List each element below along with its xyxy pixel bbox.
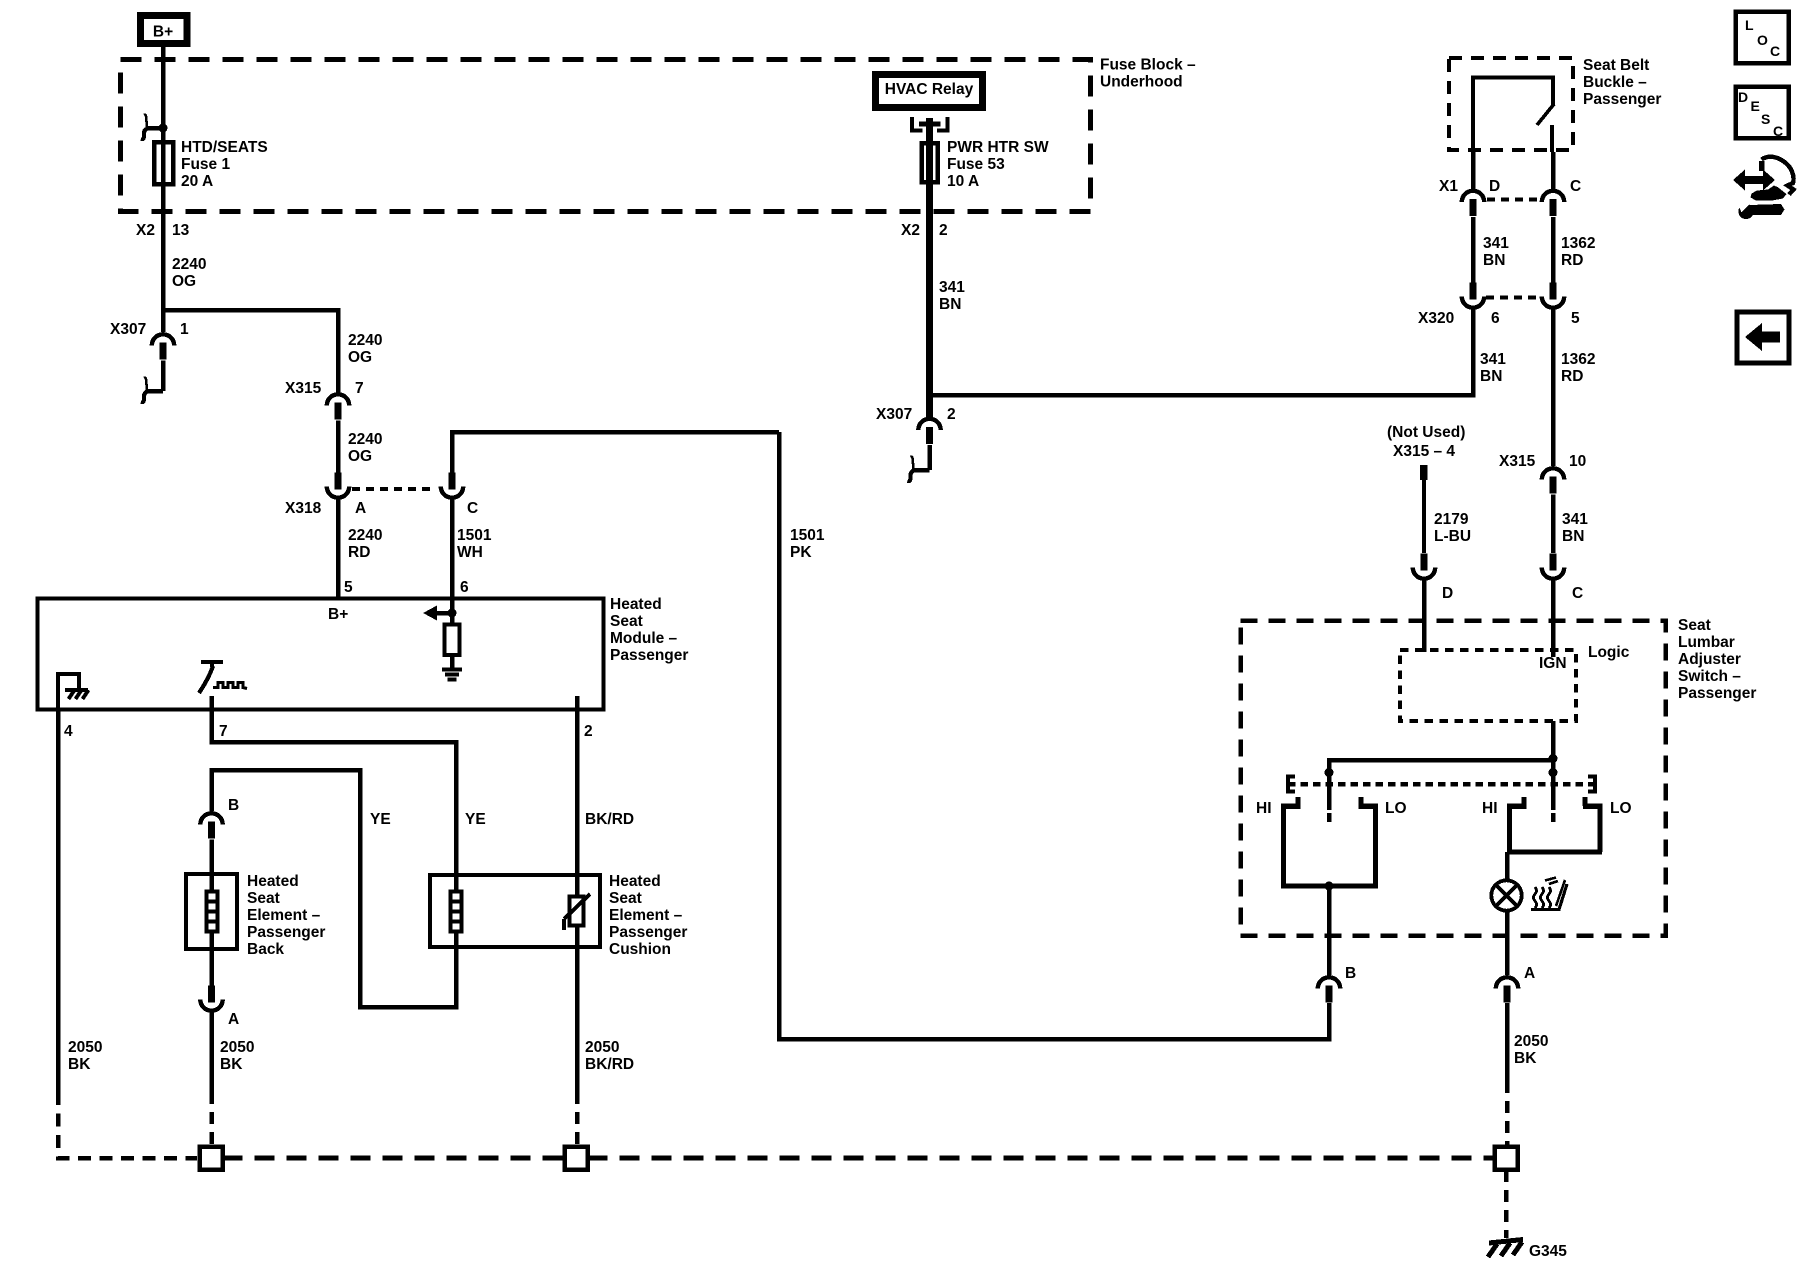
seat lumbar adjuster switch dashed box — [1241, 621, 1666, 936]
wire X1-C to X320-5 — [1551, 217, 1556, 283]
svg-text:Heated: Heated — [247, 873, 299, 890]
svg-text:2240: 2240 — [348, 431, 382, 448]
svg-text:X1: X1 — [1439, 178, 1458, 195]
label Heated Seat Element - Passenger Cushion — [609, 873, 687, 958]
wire pin 2 down to cushion element — [575, 696, 580, 897]
left switch output bar — [1281, 882, 1378, 891]
wire fuse 1 to X307 pin 1 — [161, 186, 166, 332]
wire X318-C to module pin 6 — [450, 500, 455, 599]
svg-text:LO: LO — [1610, 800, 1632, 817]
internal ground below resistor — [442, 670, 462, 680]
svg-text:E: E — [1751, 98, 1760, 114]
svg-text:O: O — [1757, 32, 1768, 48]
fuse block underhood dashed box — [121, 60, 1091, 212]
buckle switch — [1473, 78, 1554, 153]
label LO left — [1385, 800, 1407, 817]
svg-text:2050: 2050 — [220, 1039, 254, 1056]
wire A to splice S3 — [1505, 1003, 1510, 1081]
svg-text:X315: X315 — [1499, 453, 1536, 470]
cushion element resistor — [451, 876, 462, 947]
contact LO right — [1583, 797, 1603, 852]
svg-text:HI: HI — [1482, 800, 1498, 817]
svg-text:G345: G345 — [1529, 1243, 1567, 1260]
label 2179 L-BU — [1434, 511, 1471, 545]
svg-text:S: S — [1761, 111, 1770, 127]
navigate icon curved arrow — [1751, 157, 1794, 201]
dashed 2050 BK/RD to splice — [575, 1092, 580, 1146]
connector D seat lumbar — [1413, 554, 1453, 603]
seat belt buckle dashed box — [1449, 58, 1573, 150]
svg-text:Logic: Logic — [1588, 644, 1630, 661]
svg-text:YE: YE — [465, 811, 486, 828]
svg-text:Underhood: Underhood — [1100, 74, 1183, 91]
svg-text:2: 2 — [939, 222, 948, 239]
right pole dash tip — [1551, 813, 1556, 822]
svg-text:Fuse 53: Fuse 53 — [947, 156, 1005, 173]
wire X320-5 to X315-10 — [1551, 310, 1556, 467]
wire X318-A to module pin 5 — [336, 500, 341, 599]
svg-text:Lumbar: Lumbar — [1678, 634, 1735, 651]
wire D to X1 — [1471, 152, 1476, 189]
svg-text:HTD/SEATS: HTD/SEATS — [181, 139, 268, 156]
svg-text:LO: LO — [1385, 800, 1407, 817]
svg-text:A: A — [355, 500, 366, 517]
label 341 BN (X320) — [1480, 351, 1506, 385]
svg-text:Switch –: Switch – — [1678, 668, 1741, 685]
svg-text:Seat: Seat — [610, 613, 643, 630]
wire B to back element box — [209, 840, 214, 877]
wire X1-D to X320-6 — [1471, 217, 1476, 283]
label 1362 RD (X320) — [1561, 351, 1595, 385]
svg-text:Heated: Heated — [609, 873, 661, 890]
svg-text:L-BU: L-BU — [1434, 528, 1471, 545]
svg-text:B: B — [1345, 965, 1356, 982]
svg-text:X315: X315 — [285, 380, 322, 397]
contact LO left — [1359, 797, 1379, 886]
svg-text:5: 5 — [344, 579, 353, 596]
svg-text:HVAC Relay: HVAC Relay — [885, 81, 974, 98]
svg-text:6: 6 — [1491, 310, 1500, 327]
label Fuse Block - Underhood — [1100, 57, 1196, 91]
fuse F53 PWR HTR SW 10A — [922, 118, 938, 417]
svg-text:341: 341 — [1483, 235, 1509, 252]
dashed splice S3 to ground — [1504, 1170, 1509, 1238]
svg-text:2050: 2050 — [1514, 1033, 1548, 1050]
junction dot right pole top — [1549, 754, 1558, 763]
mechanical link dashed — [1288, 777, 1595, 792]
splice S2 — [565, 1147, 588, 1170]
svg-text:OG: OG — [348, 349, 372, 366]
svg-text:Passenger: Passenger — [1583, 91, 1661, 108]
svg-text:Seat: Seat — [1678, 617, 1711, 634]
label B+ inside module — [328, 606, 348, 623]
svg-text:Seat: Seat — [609, 890, 642, 907]
svg-text:C: C — [467, 500, 478, 517]
svg-text:X2: X2 — [901, 222, 920, 239]
B+ battery feed terminal box — [141, 16, 188, 44]
svg-text:BK/RD: BK/RD — [585, 1056, 634, 1073]
wire C into logic — [1551, 581, 1556, 658]
svg-text:C: C — [1773, 123, 1783, 139]
navigate icon wrench — [1737, 201, 1785, 220]
contact HI left — [1281, 797, 1301, 886]
heated seat module box — [38, 599, 604, 710]
logic dashed box — [1400, 650, 1576, 721]
svg-text:2179: 2179 — [1434, 511, 1469, 528]
svg-text:5: 5 — [1571, 310, 1580, 327]
DESC icon box — [1736, 87, 1789, 140]
internal arrow at pin 6 — [423, 606, 457, 621]
label 2050 BK (element) — [220, 1039, 254, 1073]
connector X315 pin 10 — [1499, 453, 1586, 494]
inline dashed link X320 — [1486, 296, 1539, 300]
indicator lamp — [1491, 880, 1521, 910]
label IGN — [1539, 655, 1567, 672]
svg-text:6: 6 — [460, 579, 469, 596]
svg-text:X320: X320 — [1418, 310, 1454, 327]
connector A lumbar — [1496, 965, 1535, 1003]
label pin 6 — [460, 579, 469, 596]
wire C to X1 — [1551, 152, 1556, 189]
inline dashed link X318 — [352, 487, 436, 491]
wire pin 7 to cushion element top — [212, 696, 457, 876]
label X2 2 — [901, 222, 948, 239]
connector X1 pin C — [1542, 178, 1581, 216]
label Seat Lumbar Adjuster Switch - Passenger — [1678, 617, 1756, 702]
label 341 BN (X315-10) — [1562, 511, 1588, 545]
label LO right — [1610, 800, 1632, 817]
svg-text:10: 10 — [1569, 453, 1586, 470]
fuse F1 HTD/SEATS 20A — [154, 142, 173, 186]
splice S3 — [1495, 1147, 1518, 1170]
dashed ground bus S2 to S3 — [588, 1156, 1495, 1161]
svg-text:PK: PK — [790, 544, 812, 561]
dashed ground bus S1 to S2 — [223, 1156, 565, 1161]
connector C seat lumbar — [1542, 554, 1583, 603]
svg-text:2: 2 — [947, 406, 956, 423]
dashed pin4 wire to ground bus — [58, 1092, 197, 1158]
label pin 4 — [64, 723, 73, 740]
svg-text:D: D — [1738, 89, 1748, 105]
svg-text:Back: Back — [247, 941, 284, 958]
svg-text:C: C — [1570, 178, 1581, 195]
label YE (loop) — [370, 811, 391, 828]
label 2240 OG (above X318) — [348, 431, 382, 465]
svg-text:Passenger: Passenger — [1678, 685, 1756, 702]
label HTD/SEATS Fuse 1 20 A — [181, 139, 268, 190]
svg-text:13: 13 — [172, 222, 190, 239]
svg-text:Passenger: Passenger — [610, 647, 688, 664]
label 341 BN (X1) — [1483, 235, 1509, 269]
wire D into logic — [1422, 581, 1427, 653]
svg-text:BK/RD: BK/RD — [585, 811, 634, 828]
svg-text:B: B — [228, 797, 239, 814]
label pin 7 — [219, 723, 228, 740]
svg-text:Buckle –: Buckle – — [1583, 74, 1647, 91]
label Heated Seat Element - Passenger Back — [247, 873, 325, 958]
svg-text:RD: RD — [348, 544, 370, 561]
svg-text:341: 341 — [939, 279, 965, 296]
svg-text:X2: X2 — [136, 222, 155, 239]
svg-text:B+: B+ — [153, 24, 173, 41]
connector X1 pin D — [1439, 178, 1500, 216]
svg-text:Adjuster: Adjuster — [1678, 651, 1741, 668]
label HI right — [1482, 800, 1498, 817]
wire X315-10 to switch C — [1551, 495, 1556, 554]
label 1362 RD (X1) — [1561, 235, 1595, 269]
svg-text:(Not Used): (Not Used) — [1387, 424, 1465, 441]
svg-text:Passenger: Passenger — [609, 924, 687, 941]
LOC icon box — [1736, 12, 1789, 64]
label pin 2 — [584, 723, 593, 740]
svg-text:C: C — [1770, 43, 1780, 59]
internal resistor at pin 6 — [445, 598, 460, 669]
svg-text:Element –: Element – — [247, 907, 321, 924]
svg-text:7: 7 — [219, 723, 228, 740]
svg-text:WH: WH — [457, 544, 483, 561]
wire X315-7 to X318-A — [336, 421, 341, 473]
svg-text:BN: BN — [1480, 368, 1502, 385]
label 2050 BK (lumbar) — [1514, 1033, 1548, 1067]
HVAC Relay box — [876, 75, 983, 108]
wire logic to switch poles — [1329, 721, 1553, 810]
svg-text:2240: 2240 — [348, 332, 382, 349]
svg-text:7: 7 — [355, 380, 364, 397]
svg-text:Element –: Element – — [609, 907, 683, 924]
wire to indicator lamp — [1505, 852, 1510, 881]
svg-text:2: 2 — [584, 723, 593, 740]
connector X307 pin 1 — [110, 321, 189, 360]
label HI left — [1256, 800, 1272, 817]
svg-text:10 A: 10 A — [947, 173, 979, 190]
dashed 2050 BK to splice — [209, 1092, 214, 1146]
svg-text:X318: X318 — [285, 500, 322, 517]
wire back element to A — [209, 947, 214, 986]
wire B+ to fuse 1 — [161, 44, 166, 142]
svg-text:BK: BK — [220, 1056, 243, 1073]
label Heated Seat Module - Passenger — [610, 596, 688, 664]
svg-text:2240: 2240 — [348, 527, 382, 544]
svg-text:341: 341 — [1480, 351, 1506, 368]
svg-text:C: C — [1572, 585, 1583, 602]
svg-text:OG: OG — [172, 273, 196, 290]
wire 341 BN to X320-6 riser — [930, 309, 1474, 395]
svg-text:RD: RD — [1561, 368, 1583, 385]
svg-text:X307: X307 — [876, 406, 912, 423]
svg-text:1362: 1362 — [1561, 235, 1595, 252]
splice hook at fuse 1 feed — [141, 115, 168, 140]
svg-text:1501: 1501 — [457, 527, 492, 544]
right switch output bar — [1507, 850, 1602, 855]
junction dot right pole — [1549, 768, 1558, 777]
svg-text:Fuse 1: Fuse 1 — [181, 156, 230, 173]
label 341 BN (fuse 53) — [939, 279, 965, 313]
label 2240 OG (above X315) — [348, 332, 382, 366]
cushion thermistor — [564, 894, 590, 930]
label (Not Used) X315-4 — [1387, 424, 1465, 460]
wire cushion element to splice — [575, 925, 580, 1092]
label 2240 RD — [348, 527, 382, 561]
connector X307 pin 2 — [876, 406, 956, 444]
wire lamp to A — [1505, 910, 1510, 975]
svg-text:X315 – 4: X315 – 4 — [1393, 443, 1455, 460]
svg-text:OG: OG — [348, 448, 372, 465]
relay socket bracket — [912, 117, 948, 131]
connector X315 pin 7 — [285, 380, 364, 420]
svg-text:2240: 2240 — [172, 256, 206, 273]
svg-text:BK: BK — [68, 1056, 91, 1073]
wire below X307 pin 2 with hook — [908, 445, 930, 481]
svg-text:1: 1 — [180, 321, 189, 338]
svg-text:Cushion: Cushion — [609, 941, 671, 958]
wire 1501 PK long run — [779, 432, 1329, 1039]
svg-text:A: A — [1524, 965, 1535, 982]
heated seat element cushion box — [430, 875, 600, 947]
svg-text:RD: RD — [1561, 252, 1583, 269]
inline dashed link X1 — [1487, 198, 1539, 202]
left pole dash tip — [1327, 813, 1332, 822]
connector B lumbar — [1318, 965, 1356, 1003]
wire pin 4 down — [56, 710, 61, 1092]
svg-text:20 A: 20 A — [181, 173, 213, 190]
wire branch to X315 pin 7 — [163, 310, 338, 393]
connector X320 pin 5 — [1542, 283, 1580, 328]
ground G345 — [1488, 1240, 1523, 1258]
svg-text:Module –: Module – — [610, 630, 678, 647]
navigate icon double arrow — [1733, 170, 1775, 191]
connector A back element — [200, 986, 239, 1029]
label PWR HTR SW Fuse 53 10 A — [947, 139, 1049, 190]
back arrow icon box — [1737, 312, 1789, 363]
svg-text:Fuse Block –: Fuse Block – — [1100, 57, 1196, 74]
connector X320 pin 6 — [1418, 283, 1500, 328]
svg-text:BN: BN — [1562, 528, 1584, 545]
svg-text:PWR HTR SW: PWR HTR SW — [947, 139, 1049, 156]
svg-text:BN: BN — [1483, 252, 1505, 269]
wire back element B loop — [212, 770, 457, 1007]
label 2050 BK/RD — [585, 1039, 634, 1073]
label 2050 BK (pin4) — [68, 1039, 102, 1073]
connector X318 pin A — [285, 473, 366, 518]
svg-text:B+: B+ — [328, 606, 348, 623]
svg-text:IGN: IGN — [1539, 655, 1567, 672]
svg-text:1501: 1501 — [790, 527, 825, 544]
svg-text:BN: BN — [939, 296, 961, 313]
svg-text:BK: BK — [1514, 1050, 1537, 1067]
label X2 13 — [136, 222, 190, 239]
svg-text:X307: X307 — [110, 321, 146, 338]
svg-text:D: D — [1489, 178, 1500, 195]
label Logic — [1588, 644, 1630, 661]
svg-text:A: A — [228, 1011, 239, 1028]
svg-text:HI: HI — [1256, 800, 1272, 817]
internal chassis ground at pin 4 — [58, 674, 89, 710]
connector B back element — [200, 797, 239, 839]
svg-text:Seat Belt: Seat Belt — [1583, 57, 1649, 74]
splice S1 — [200, 1147, 223, 1170]
dashed A wire to splice S3 — [1505, 1081, 1510, 1146]
label BK/RD — [585, 811, 634, 828]
svg-text:2050: 2050 — [585, 1039, 619, 1056]
label 1501 WH — [457, 527, 492, 561]
svg-text:Seat: Seat — [247, 890, 280, 907]
stub X315 pin 4 — [1420, 465, 1428, 553]
label 2240 OG (above X307) — [172, 256, 206, 290]
svg-text:YE: YE — [370, 811, 391, 828]
wire below X307 pin 1 with hook — [141, 361, 163, 403]
svg-text:Heated: Heated — [610, 596, 662, 613]
label pin 5 — [344, 579, 353, 596]
junction dot left pole — [1325, 768, 1334, 777]
svg-text:2050: 2050 — [68, 1039, 102, 1056]
connector X318 pin C — [441, 473, 478, 518]
svg-text:D: D — [1442, 585, 1453, 602]
wire 2050 BK from A — [209, 1013, 214, 1093]
svg-text:341: 341 — [1562, 511, 1588, 528]
heated seat icon — [1531, 878, 1567, 910]
svg-text:1362: 1362 — [1561, 351, 1595, 368]
label Seat Belt Buckle - Passenger — [1583, 57, 1661, 108]
wire left switch to B — [1327, 886, 1332, 975]
heated seat element back box — [186, 874, 237, 949]
internal thermal switch at pin 7 — [199, 662, 247, 693]
label 1501 PK — [790, 527, 825, 561]
svg-text:Passenger: Passenger — [247, 924, 325, 941]
svg-text:4: 4 — [64, 723, 73, 740]
label YE (cushion) — [465, 811, 486, 828]
back element resistor — [207, 876, 218, 947]
contact HI right — [1507, 797, 1527, 852]
wire X318-C from 1501 PK run — [452, 432, 779, 473]
label G345 — [1529, 1243, 1567, 1260]
svg-text:L: L — [1745, 17, 1754, 33]
